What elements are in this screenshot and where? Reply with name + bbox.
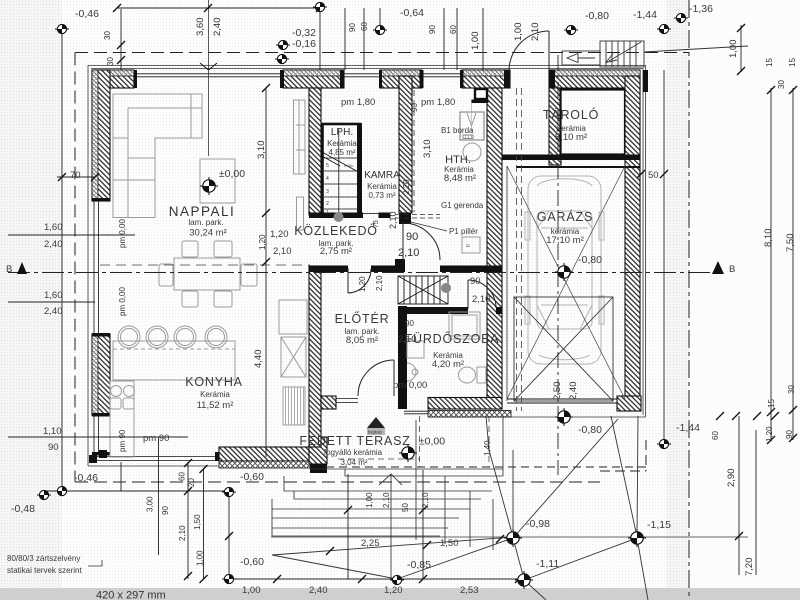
svg-text:3,04 m²: 3,04 m² (340, 458, 367, 467)
svg-text:LPH.: LPH. (331, 127, 353, 138)
svg-text:2,10: 2,10 (421, 492, 430, 508)
svg-text:-1,36: -1,36 (689, 3, 713, 15)
svg-text:70: 70 (70, 170, 81, 181)
svg-text:8,10: 8,10 (763, 229, 774, 248)
svg-text:P1 pillér: P1 pillér (449, 227, 478, 236)
svg-text:FÜRDŐSZOBA: FÜRDŐSZOBA (405, 331, 500, 346)
svg-text:60: 60 (711, 431, 720, 440)
svg-text:x 18=: x 18= (344, 163, 355, 168)
svg-text:-1,11: -1,11 (536, 558, 559, 570)
svg-text:2,10: 2,10 (273, 246, 292, 257)
svg-text:2: 2 (326, 201, 329, 207)
svg-text:lam. park.: lam. park. (188, 218, 223, 227)
svg-text:15: 15 (767, 399, 776, 408)
svg-text:1,00: 1,00 (242, 585, 261, 596)
svg-text:1,40: 1,40 (483, 440, 492, 456)
svg-text:4: 4 (326, 176, 329, 182)
svg-text:Kerámia: Kerámia (200, 390, 230, 399)
svg-text:ELŐTÉR: ELŐTÉR (335, 311, 390, 326)
svg-text:4,85 m²: 4,85 m² (328, 148, 355, 157)
svg-text:1,60: 1,60 (44, 222, 63, 233)
svg-text:7,20: 7,20 (744, 558, 755, 577)
svg-text:-0,98: -0,98 (526, 518, 550, 530)
svg-text:-0,85: -0,85 (407, 559, 431, 571)
svg-text:1,50: 1,50 (440, 538, 459, 549)
svg-text:30: 30 (106, 57, 115, 66)
svg-text:30,24 m²: 30,24 m² (189, 228, 227, 239)
svg-text:50: 50 (648, 170, 659, 181)
svg-text:-0,16: -0,16 (292, 38, 316, 50)
svg-text:GARÁZS: GARÁZS (537, 209, 593, 224)
svg-text:1,00: 1,00 (196, 550, 205, 566)
svg-text:pm 0,00: pm 0,00 (118, 219, 127, 248)
svg-text:1,20: 1,20 (258, 234, 267, 250)
svg-text:30: 30 (777, 80, 786, 89)
svg-text:2,75 m²: 2,75 m² (320, 246, 352, 257)
svg-text:Kerámia: Kerámia (367, 182, 397, 191)
svg-text:90: 90 (470, 276, 481, 287)
svg-text:15: 15 (788, 58, 797, 67)
svg-text:20: 20 (187, 478, 196, 487)
svg-text:1,20: 1,20 (765, 426, 774, 442)
svg-text:60: 60 (360, 22, 369, 31)
svg-text:2,20: 2,20 (402, 179, 411, 195)
svg-text:8,48 m²: 8,48 m² (444, 173, 476, 184)
svg-text:17,10 m²: 17,10 m² (546, 235, 584, 246)
svg-text:pm 90: pm 90 (143, 433, 169, 444)
svg-text:0,73 m²: 0,73 m² (368, 191, 395, 200)
svg-text:5,10 m²: 5,10 m² (555, 132, 587, 143)
svg-text:3,10: 3,10 (256, 141, 267, 160)
svg-text:1,10: 1,10 (43, 426, 62, 437)
svg-text:-0,80: -0,80 (578, 254, 602, 266)
svg-text:1,20: 1,20 (384, 585, 403, 596)
svg-text:2,90: 2,90 (726, 469, 737, 488)
svg-text:3: 3 (326, 189, 329, 195)
svg-text:KAMRA: KAMRA (364, 170, 400, 181)
svg-text:3,60: 3,60 (195, 18, 206, 37)
svg-text:±0,00: ±0,00 (419, 436, 445, 448)
svg-text:-1,15: -1,15 (647, 519, 671, 531)
svg-text:NAPPALI: NAPPALI (169, 204, 236, 219)
svg-text:90: 90 (406, 231, 418, 243)
svg-text:fogyálló kerámia: fogyálló kerámia (324, 448, 383, 457)
svg-text:2,10: 2,10 (375, 275, 384, 291)
svg-text:60: 60 (178, 472, 187, 481)
svg-text:-0,60: -0,60 (240, 556, 264, 568)
svg-text:1,00: 1,00 (728, 40, 739, 59)
svg-text:2,10: 2,10 (398, 247, 419, 259)
svg-text:-0,46: -0,46 (75, 8, 99, 20)
svg-text:1,20: 1,20 (358, 276, 367, 292)
svg-text:90: 90 (410, 103, 419, 112)
svg-text:KONYHA: KONYHA (185, 375, 243, 389)
svg-text:2,10: 2,10 (382, 492, 391, 508)
svg-text:90: 90 (161, 506, 170, 515)
svg-text:-1,44: -1,44 (676, 422, 700, 434)
svg-text:B: B (6, 264, 12, 275)
svg-text:pm 90: pm 90 (118, 429, 127, 452)
svg-text:pm 0,00: pm 0,00 (118, 287, 127, 316)
svg-text:11,52 m²: 11,52 m² (197, 400, 234, 411)
svg-text:statikai tervek szerint: statikai tervek szerint (7, 566, 82, 575)
svg-text:KÖZLEKEDŐ: KÖZLEKEDŐ (294, 223, 378, 238)
svg-text:2,50: 2,50 (552, 382, 563, 401)
svg-text:-1,44: -1,44 (633, 9, 657, 21)
svg-text:2,40: 2,40 (309, 585, 328, 596)
svg-text:1,20: 1,20 (270, 229, 289, 240)
svg-text:G1 gerenda: G1 gerenda (441, 201, 484, 210)
svg-text:B1 borda: B1 borda (441, 126, 474, 135)
svg-text:-0,80: -0,80 (585, 10, 609, 22)
svg-text:90: 90 (785, 430, 794, 439)
svg-text:-0,80: -0,80 (578, 424, 602, 436)
svg-text:2,40: 2,40 (212, 18, 223, 37)
svg-text:2,10: 2,10 (388, 211, 398, 229)
svg-text:1,00: 1,00 (470, 32, 481, 51)
svg-text:75: 75 (373, 220, 380, 228)
svg-text:1: 1 (326, 210, 329, 216)
svg-text:pm 1,80: pm 1,80 (421, 97, 455, 108)
svg-text:3,00: 3,00 (146, 496, 155, 512)
svg-text:90: 90 (428, 25, 437, 34)
svg-text:80/80/3 zártszelvény: 80/80/3 zártszelvény (7, 554, 80, 563)
svg-text:2,10: 2,10 (472, 294, 491, 305)
svg-text:-0,60: -0,60 (240, 471, 264, 483)
svg-text:2,53: 2,53 (460, 585, 479, 596)
svg-text:1,00: 1,00 (513, 23, 524, 42)
svg-text:1,50: 1,50 (193, 514, 202, 530)
svg-text:90: 90 (405, 319, 414, 328)
svg-text:90: 90 (48, 442, 59, 453)
svg-text:1,60: 1,60 (44, 290, 63, 301)
svg-text:2,10: 2,10 (178, 525, 187, 541)
svg-text:2,10: 2,10 (530, 23, 541, 42)
svg-text:2,40: 2,40 (44, 239, 63, 250)
svg-text:1,00: 1,00 (365, 492, 374, 508)
svg-text:3,10: 3,10 (422, 140, 433, 159)
svg-text:-0,64: -0,64 (400, 7, 424, 19)
svg-text:Kerámia: Kerámia (327, 139, 357, 148)
svg-text:2,40: 2,40 (44, 306, 63, 317)
svg-text:2,10: 2,10 (398, 334, 417, 345)
svg-text:420 x 297 mm: 420 x 297 mm (96, 590, 166, 600)
svg-text:FEDETT TERASZ: FEDETT TERASZ (299, 434, 410, 448)
svg-text:4,20 m²: 4,20 m² (432, 359, 464, 370)
svg-text:15: 15 (765, 58, 774, 67)
svg-text:7,50: 7,50 (785, 234, 796, 253)
svg-text:-0,48: -0,48 (11, 503, 35, 515)
svg-text:50: 50 (401, 503, 410, 512)
svg-text:5: 5 (326, 163, 329, 169)
svg-text:±0,00: ±0,00 (219, 168, 245, 180)
svg-text:90: 90 (348, 23, 357, 32)
svg-text:pm 1,80: pm 1,80 (341, 97, 375, 108)
svg-text:60: 60 (449, 25, 458, 34)
svg-text:2,40: 2,40 (568, 382, 579, 401)
svg-text:-0,46: -0,46 (74, 472, 98, 484)
svg-text:30: 30 (787, 385, 796, 394)
svg-text:30: 30 (103, 31, 112, 40)
svg-text:pm 0,00: pm 0,00 (393, 380, 427, 391)
svg-text:B: B (729, 264, 735, 275)
svg-text:4,40: 4,40 (253, 350, 264, 369)
svg-text:2,25: 2,25 (361, 538, 380, 549)
svg-text:TÁROLÓ: TÁROLÓ (543, 107, 599, 122)
svg-text:≈: ≈ (466, 243, 470, 250)
svg-text:8,05 m²: 8,05 m² (346, 335, 378, 346)
